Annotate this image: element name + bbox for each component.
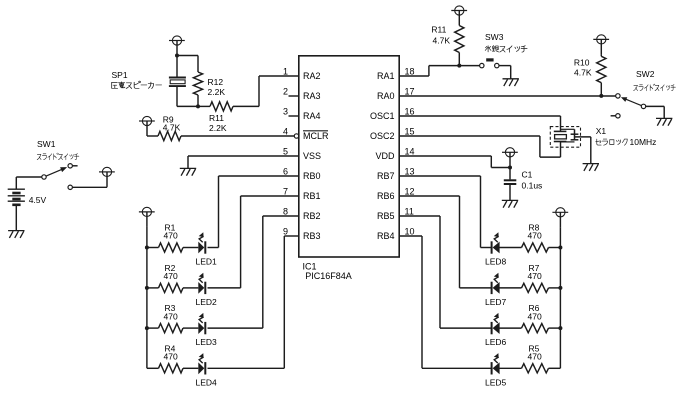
resistor R4 470 xyxy=(159,364,184,373)
wire LED2 to RB1 pin 7 xyxy=(208,287,241,289)
resistor R2 470 xyxy=(159,283,184,292)
wire R9 to MCLR pin 4 xyxy=(181,135,294,137)
wire R1 to LED1 xyxy=(183,247,198,249)
resistor R11 4.7K xyxy=(455,26,464,53)
svg-text:OSC2: OSC2 xyxy=(370,131,395,141)
svg-text:RA4: RA4 xyxy=(303,111,321,121)
wire SP1 bottom to junction xyxy=(177,105,198,107)
svg-text:LED2: LED2 xyxy=(196,297,218,307)
wire OSC2 pin 15 to X1 xyxy=(399,135,540,137)
resistor R8 470 xyxy=(522,243,549,252)
svg-text:SW2: SW2 xyxy=(636,69,655,79)
svg-text:9: 9 xyxy=(283,227,288,237)
svg-text:470: 470 xyxy=(164,352,178,362)
resistor R12 2.2K xyxy=(193,72,202,95)
LED2 xyxy=(198,273,205,294)
battery BT1 4.5V xyxy=(8,188,25,190)
power symbol VCC right LED bus xyxy=(552,208,568,228)
svg-text:RB1: RB1 xyxy=(303,191,321,201)
wire junction to R12 top xyxy=(177,55,198,57)
wire R11 to RA2 pin 1 xyxy=(233,105,259,107)
wire SW2 to ground xyxy=(646,105,665,107)
svg-text:VDD: VDD xyxy=(375,151,395,161)
LED4 xyxy=(198,353,205,374)
wire RB pin 10 to LED5 xyxy=(399,235,422,237)
wire RA0 pin 17 to SW2 xyxy=(399,95,616,97)
svg-text:C1: C1 xyxy=(522,170,533,180)
label セラロック10MHz xyxy=(596,139,628,145)
node junction R11/RA1/SW3 xyxy=(457,64,461,68)
svg-text:4.7K: 4.7K xyxy=(574,68,592,78)
svg-text:17: 17 xyxy=(405,87,415,97)
wire R10 to node xyxy=(600,54,602,56)
LED1 xyxy=(198,232,205,253)
power symbol VCC for R9 xyxy=(139,116,155,136)
svg-text:6: 6 xyxy=(283,167,288,177)
wire RA1 pin 18 to SW3 xyxy=(399,75,429,77)
wire LED5 to R5 xyxy=(498,367,521,369)
svg-text:4.7K: 4.7K xyxy=(163,123,181,133)
svg-text:MCLR: MCLR xyxy=(303,131,329,141)
resistor R7 470 xyxy=(522,283,549,292)
svg-text:R11: R11 xyxy=(209,113,224,123)
resistor R9 4.7K xyxy=(158,131,181,140)
svg-text:470: 470 xyxy=(528,231,542,241)
svg-text:470: 470 xyxy=(164,271,178,281)
MCLR inverting bubble xyxy=(294,134,298,138)
power symbol VCC above SP1 xyxy=(169,36,185,56)
svg-text:4.7K: 4.7K xyxy=(433,36,451,46)
ground VSS xyxy=(180,168,196,175)
svg-text:RA1: RA1 xyxy=(377,71,395,81)
wire RB pin 11 to LED6 xyxy=(399,215,440,217)
wire left LED power bus xyxy=(146,227,148,368)
LED5 xyxy=(492,353,500,374)
svg-text:VSS: VSS xyxy=(303,151,321,161)
switch SW1 throw A contact xyxy=(68,164,72,168)
wire LED4 to RB3 pin 9 xyxy=(208,367,285,369)
wire bus to R4 xyxy=(147,367,159,369)
resistor R1 470 xyxy=(159,243,184,252)
crystal resonator X1 ceralock xyxy=(550,127,580,148)
ground SW3 xyxy=(503,79,519,86)
ground C1 xyxy=(502,200,518,207)
wire R8 to bus xyxy=(549,247,561,249)
svg-text:11: 11 xyxy=(405,207,414,217)
svg-text:RB5: RB5 xyxy=(377,211,395,221)
svg-text:470: 470 xyxy=(164,231,178,241)
svg-text:R12: R12 xyxy=(208,77,224,87)
node junction right bus row 1 xyxy=(558,246,562,250)
wire power to R9 xyxy=(147,135,158,137)
svg-text:4: 4 xyxy=(283,127,288,137)
switch SW1 throw B contact xyxy=(68,185,72,189)
resistor R10 4.7K xyxy=(597,56,606,82)
wire SW1 to battery xyxy=(16,176,42,178)
wire X1 to ground xyxy=(575,136,591,138)
resistor R6 470 xyxy=(522,324,549,333)
svg-text:2.2K: 2.2K xyxy=(209,123,227,133)
svg-text:7: 7 xyxy=(283,187,288,197)
svg-text:470: 470 xyxy=(528,352,542,362)
svg-text:SW3: SW3 xyxy=(485,32,504,42)
svg-text:15: 15 xyxy=(405,127,415,137)
wire R3 to LED3 xyxy=(183,327,198,329)
power symbol VCC for VDD xyxy=(502,148,518,168)
svg-text:10MHz: 10MHz xyxy=(630,137,657,147)
wire R7 to bus xyxy=(549,287,561,289)
svg-text:RB6: RB6 xyxy=(377,191,395,201)
wire R11 to node xyxy=(458,53,460,66)
wire LED7 to R7 xyxy=(498,287,521,289)
switch SW3 right contact xyxy=(495,63,499,67)
node junction left bus row 3 xyxy=(145,326,149,330)
svg-text:LED4: LED4 xyxy=(196,377,218,387)
svg-text:2.2K: 2.2K xyxy=(208,87,226,97)
ground SW2 xyxy=(656,118,672,125)
svg-text:LED3: LED3 xyxy=(196,337,218,347)
node junction left bus row 1 xyxy=(145,246,149,250)
switch SW2 common contact xyxy=(641,104,645,108)
switch SW2 throw A contact xyxy=(616,94,620,98)
switch SW2 throw B stub xyxy=(611,115,616,117)
svg-text:0.1us: 0.1us xyxy=(522,181,543,191)
wire R4 to LED4 xyxy=(183,367,198,369)
capacitor C1 0.1u xyxy=(509,168,511,180)
label 圧電スピーカー xyxy=(112,81,162,88)
wire LED8 to R8 xyxy=(498,247,521,249)
svg-text:RA3: RA3 xyxy=(303,91,321,101)
switch SW1 arm with arrow xyxy=(46,169,62,176)
switch SW3 mercury body xyxy=(486,58,493,61)
resistor R11 2.2K xyxy=(210,102,233,111)
svg-text:18: 18 xyxy=(405,67,415,77)
label 水銀スイッチ xyxy=(485,46,527,53)
pin 3 stub RA4 xyxy=(289,115,299,117)
IC U1 PIC16F84A body xyxy=(299,56,399,257)
node junction VDD/C1 xyxy=(508,166,512,170)
svg-text:RB4: RB4 xyxy=(377,231,395,241)
svg-text:LED1: LED1 xyxy=(196,257,218,267)
wire battery to ground xyxy=(15,206,17,231)
wire OSC1 pin 16 to X1 xyxy=(399,115,560,117)
node junction SP1/R12 top xyxy=(175,54,179,58)
switch SW3 left contact xyxy=(480,63,484,67)
LED8 xyxy=(492,232,500,253)
node junction right bus row 3 xyxy=(558,326,562,330)
label スライドスイッチ SW1 xyxy=(37,153,79,160)
svg-text:PIC16F84A: PIC16F84A xyxy=(305,271,352,281)
switch SW2 throw B contact xyxy=(616,114,620,118)
wire VDD pin 14 to node xyxy=(399,155,491,157)
svg-text:4.5V: 4.5V xyxy=(29,195,47,205)
wire SW1 throw B to power xyxy=(73,186,107,188)
wire R6 to bus xyxy=(549,327,561,329)
svg-text:14: 14 xyxy=(405,147,415,157)
switch SW2 arm with arrow xyxy=(626,99,642,106)
wire right LED power bus xyxy=(559,227,561,368)
switch SW1 common contact xyxy=(42,175,46,179)
svg-text:8: 8 xyxy=(283,207,288,217)
svg-text:RB7: RB7 xyxy=(377,171,395,181)
svg-text:RB0: RB0 xyxy=(303,171,321,181)
wire junction to R11 xyxy=(198,105,210,107)
svg-text:R11: R11 xyxy=(431,25,446,35)
wire LED6 to R6 xyxy=(498,327,521,329)
wire LED1 to RB0 pin 6 xyxy=(208,247,219,249)
svg-text:LED6: LED6 xyxy=(485,337,507,347)
node junction right bus row 2 xyxy=(558,286,562,290)
power symbol VCC right of SW1 xyxy=(99,167,115,187)
speaker SP1 piezo xyxy=(176,56,178,77)
LED7 xyxy=(492,273,500,294)
wire RB pin 13 to LED8 xyxy=(399,175,480,177)
LED6 xyxy=(492,313,500,334)
wire R2 to LED2 xyxy=(183,287,198,289)
pin 2 stub RA3 xyxy=(289,95,299,97)
power symbol VCC above R11 xyxy=(451,6,467,26)
svg-text:IC1: IC1 xyxy=(303,262,317,272)
wire SW3 to ground xyxy=(499,65,511,67)
svg-text:1: 1 xyxy=(283,67,288,77)
svg-text:RA2: RA2 xyxy=(303,71,321,81)
wire R5 to bus xyxy=(549,367,561,369)
node junction left bus row 2 xyxy=(145,286,149,290)
ground battery xyxy=(8,231,24,238)
svg-text:SP1: SP1 xyxy=(112,70,128,80)
svg-text:RB2: RB2 xyxy=(303,211,321,221)
svg-text:LED8: LED8 xyxy=(485,257,507,267)
svg-text:13: 13 xyxy=(405,167,415,177)
svg-text:470: 470 xyxy=(164,311,178,321)
svg-text:OSC1: OSC1 xyxy=(370,111,395,121)
ground X1 xyxy=(583,164,599,171)
power symbol VCC left LED bus xyxy=(139,207,155,227)
wire R12 bottom to junction xyxy=(197,95,199,106)
wire VSS pin 5 to ground xyxy=(188,155,299,157)
svg-text:5: 5 xyxy=(283,147,288,157)
svg-text:12: 12 xyxy=(405,187,415,197)
power symbol VCC above R10 xyxy=(593,35,609,55)
resistor R5 470 xyxy=(522,364,549,373)
wire LED3 to RB2 pin 8 xyxy=(208,327,263,329)
label スライドスイッチ SW2 xyxy=(634,84,676,91)
svg-text:3: 3 xyxy=(283,107,288,117)
svg-text:RB3: RB3 xyxy=(303,231,321,241)
wire RB pin 12 to LED7 xyxy=(399,195,459,197)
wire bus to R1 xyxy=(147,247,159,249)
svg-text:LED7: LED7 xyxy=(485,297,507,307)
wire bus to R2 xyxy=(147,287,159,289)
node junction R10/RA0 xyxy=(599,94,603,98)
svg-text:10: 10 xyxy=(405,227,415,237)
svg-text:LED5: LED5 xyxy=(485,377,507,387)
svg-text:470: 470 xyxy=(528,311,542,321)
svg-text:2: 2 xyxy=(283,87,288,97)
wire bus to R3 xyxy=(147,327,159,329)
svg-text:X1: X1 xyxy=(596,126,607,136)
switch SW1 throw A stub xyxy=(73,165,78,167)
svg-text:SW1: SW1 xyxy=(37,139,56,149)
resistor R3 470 xyxy=(159,324,184,333)
svg-text:R10: R10 xyxy=(574,58,590,68)
svg-text:RA0: RA0 xyxy=(377,91,395,101)
svg-text:16: 16 xyxy=(405,107,415,117)
LED3 xyxy=(198,313,205,334)
svg-text:470: 470 xyxy=(528,271,542,281)
node junction SP1/R12/R11 bottom xyxy=(196,104,200,108)
